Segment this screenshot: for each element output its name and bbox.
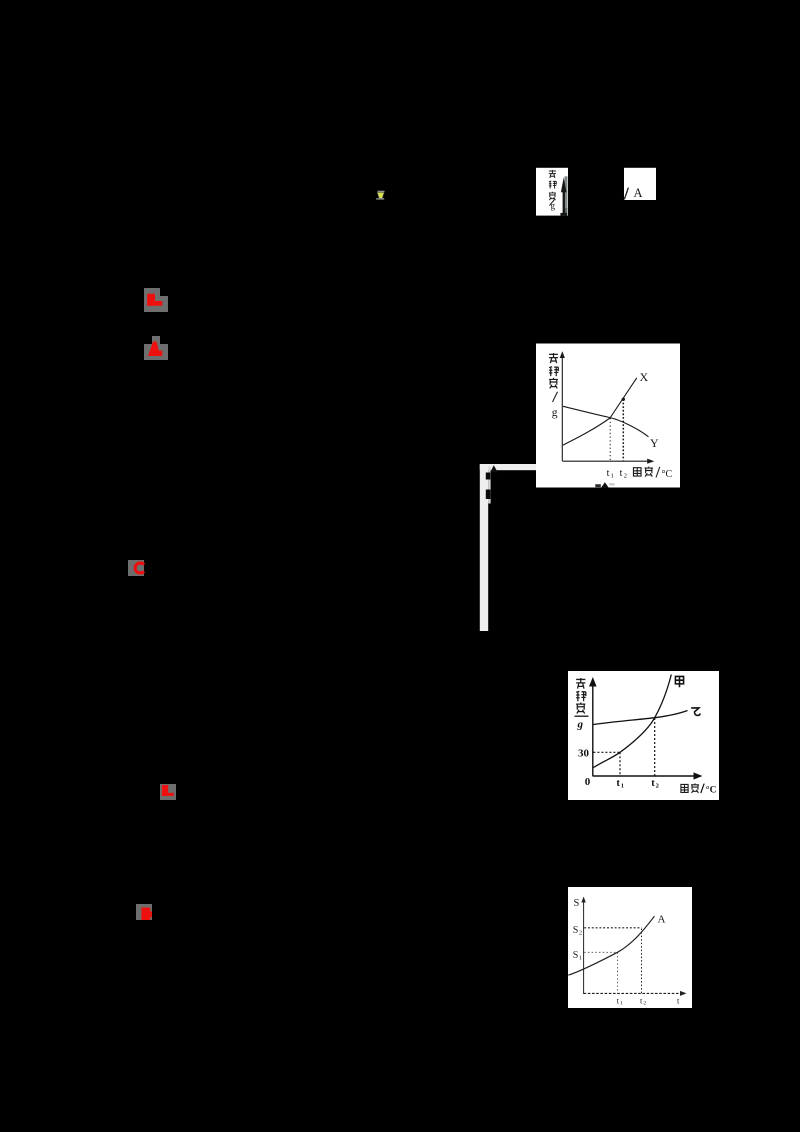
white annotation line (L-shape callout) [480,464,536,631]
chart 4: S-t curve [568,887,692,1008]
chart 2 dotted t2 [622,399,624,461]
svg-text:2: 2 [579,931,582,937]
svg-text:g: g [552,407,558,419]
red mark 1 (letter L, gray highlight) [144,288,168,312]
chart 3 dotted t2 [654,718,656,776]
svg-text:°C: °C [706,785,717,796]
chart 4 x-axis (dotted) [584,992,683,994]
svg-text:2: 2 [656,783,659,790]
svg-text:0: 0 [585,776,591,788]
svg-text:30: 30 [578,748,590,760]
svg-text:S: S [573,950,579,961]
svg-text:Y: Y [650,436,659,450]
chart 2 curve Y [563,406,649,437]
chart 3 dotted 30-t1 [593,751,620,753]
chart 3 x-axis [593,775,699,777]
svg-text:A: A [658,914,666,926]
chart 2 x-axis [562,460,651,462]
svg-text:2: 2 [624,473,627,480]
chart 2 dotted t1 [609,418,611,461]
chart 4 curve A [568,916,654,975]
figure fragment 1: y-axis label box (top) [536,168,568,216]
svg-text:t: t [620,468,623,479]
chart 3 y-axis [592,679,594,776]
figure fragment 2: slash-A box (top) [624,168,656,200]
red mark 5 (letter block, gray highlight) [136,904,152,920]
svg-text:t: t [607,468,610,479]
svg-text:g: g [577,719,584,731]
chart 4 y-axis [583,898,585,994]
svg-text:1: 1 [621,783,624,790]
chart 2 y-axis [561,354,563,461]
chart 3 curve yi [594,711,688,725]
svg-text:2: 2 [643,1001,646,1007]
red mark 2 (letter A, gray highlight) [144,336,168,360]
chart 3 curve jia [594,675,672,768]
svg-text:S: S [573,925,579,936]
svg-text:g: g [551,201,556,211]
svg-text:t: t [616,778,620,789]
chart 2: X/Y solubility curves [536,344,680,488]
svg-text:1: 1 [611,473,614,480]
svg-text:°C: °C [662,469,673,480]
svg-text:1: 1 [620,1001,623,1007]
red mark 4 (letter L, gray highlight) [160,784,176,800]
yellow funnel icon [376,191,384,200]
svg-text:S: S [574,898,580,909]
chart 3: jia/yi solubility curves [568,671,719,800]
svg-text:t: t [651,778,655,789]
chart 2 bottom marker [601,482,609,488]
chart 3 wen-du label [681,783,699,793]
svg-text:X: X [640,370,649,384]
svg-text:1: 1 [579,956,582,962]
chart 2 curve X [563,378,637,445]
svg-text:A: A [634,186,643,200]
red mark 3 (letter C, gray highlight) [128,560,144,576]
